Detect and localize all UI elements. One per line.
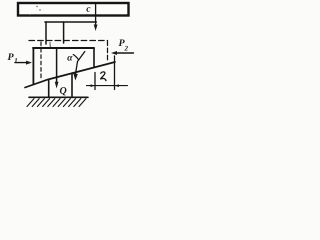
wedge left edge bbox=[32, 48, 34, 84]
dimension l arrowheads bbox=[91, 84, 95, 87]
body top edge bbox=[45, 21, 96, 23]
force P1 arrow bbox=[15, 62, 29, 64]
arc wing at alpha bbox=[73, 55, 78, 60]
dimension l right tick bbox=[114, 56, 116, 90]
hidden outline: short dashed vertical left bbox=[40, 42, 42, 80]
force P2 arrow bbox=[115, 52, 134, 54]
label P2 bbox=[119, 39, 125, 46]
hidden outline: dashed horizontal bbox=[29, 40, 108, 42]
ground line bbox=[29, 96, 88, 98]
wedge top edge bbox=[33, 47, 94, 49]
pedestal right edge bbox=[71, 74, 73, 97]
speckle dots in plate bbox=[20, 6, 41, 63]
label alpha bbox=[67, 56, 72, 61]
top plate bbox=[18, 3, 129, 16]
plunger right edge bbox=[63, 22, 65, 43]
dimension c arrow bbox=[95, 5, 97, 28]
ground hatching bbox=[27, 99, 86, 107]
label c bbox=[86, 7, 90, 12]
force Q arrow bbox=[56, 49, 58, 84]
incline surface bbox=[25, 62, 115, 88]
hidden outline: dashed vertical right bbox=[107, 41, 109, 62]
dimension l left tick bbox=[94, 73, 96, 90]
label l glyph bbox=[100, 72, 106, 81]
plunger left edge bbox=[45, 22, 47, 44]
pedestal left edge bbox=[48, 80, 50, 97]
wedge right edge bbox=[93, 48, 95, 67]
label Q bbox=[60, 87, 67, 95]
small hidden dash bbox=[49, 43, 51, 48]
dimension l line bbox=[87, 85, 128, 87]
label P1 bbox=[8, 53, 14, 60]
normal reaction arrow bbox=[75, 52, 85, 77]
